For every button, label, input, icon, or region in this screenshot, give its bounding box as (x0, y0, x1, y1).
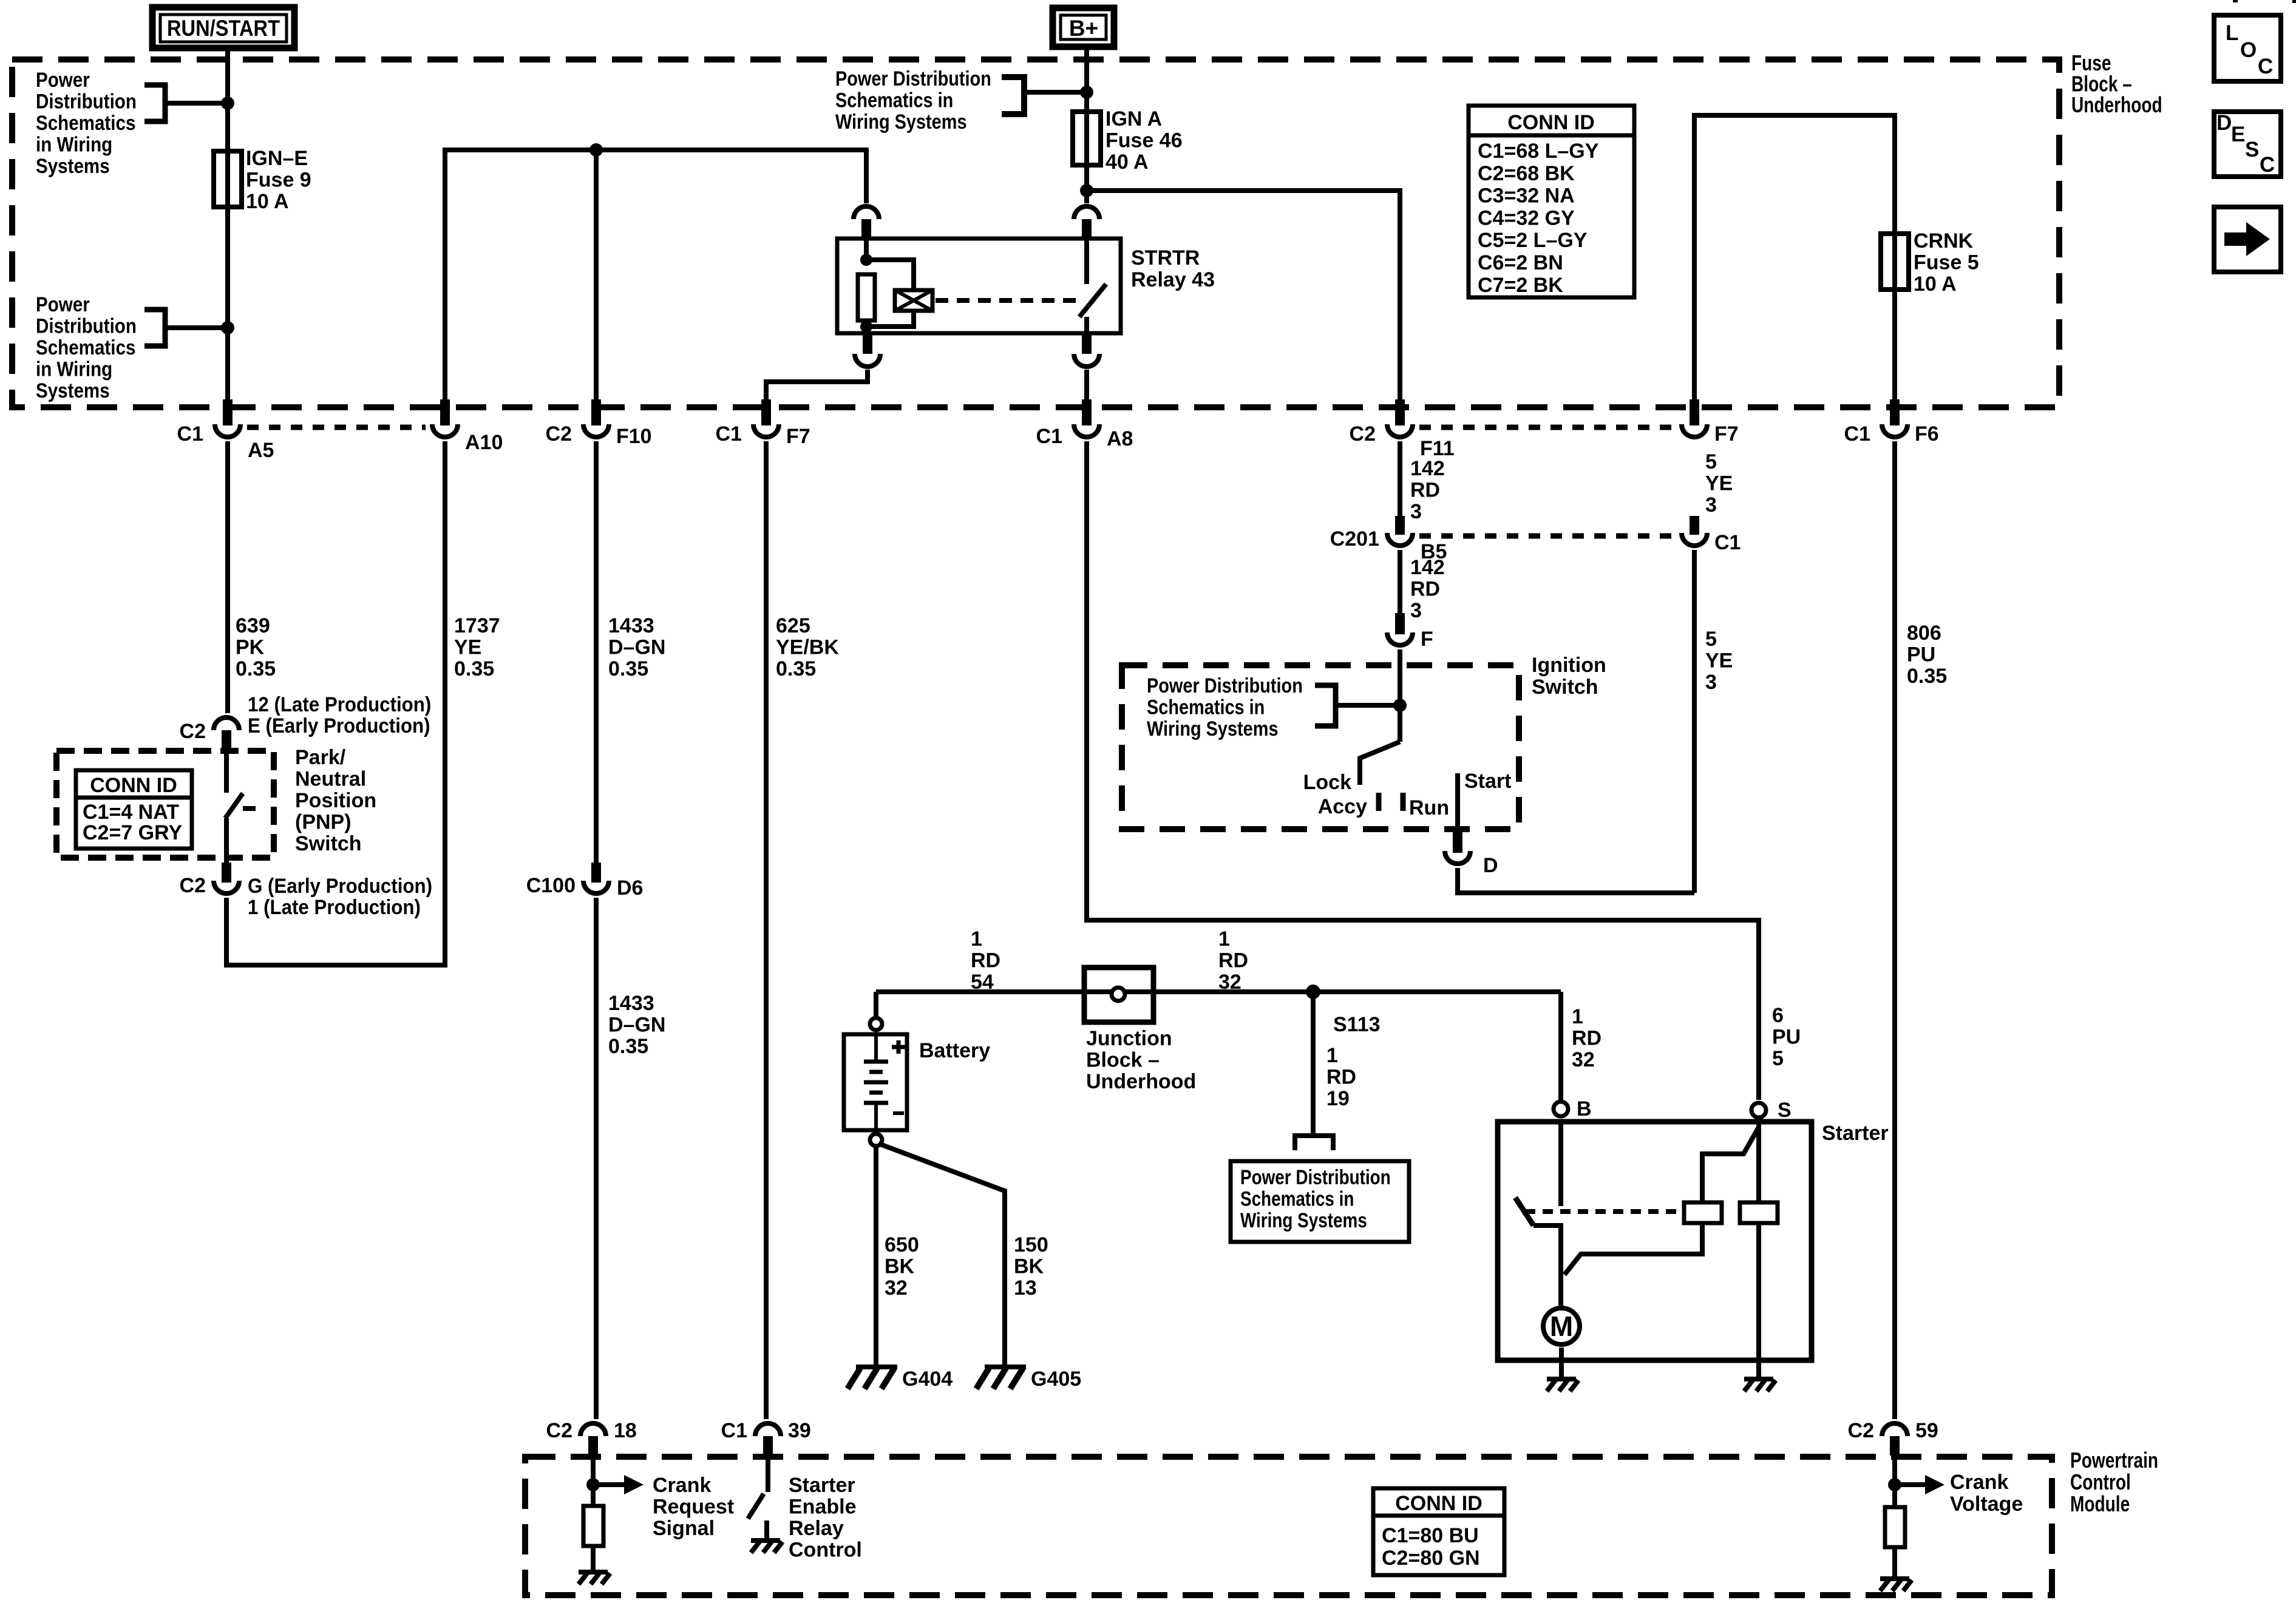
relay coil element box (895, 290, 932, 311)
svg-text:(PNP): (PNP) (295, 811, 352, 834)
relay coil-side top pin (861, 219, 871, 239)
svg-text:in Wiring: in Wiring (36, 358, 112, 381)
page edge artifacts (2233, 0, 2238, 2)
table CONN ID PCM (1373, 1488, 1504, 1575)
ignition Start contact bar (1455, 773, 1460, 832)
wire branch to F11 drop (1089, 191, 1400, 401)
svg-text:CONN ID: CONN ID (90, 774, 177, 797)
starter hold coil box (1740, 1202, 1778, 1223)
dotted connector line A5 to A10 (247, 425, 426, 430)
junction node below IGN A fuse (1080, 184, 1093, 197)
svg-text:10 A: 10 A (246, 190, 289, 213)
wire A10 riser and horizontal feeder to relay (445, 150, 866, 401)
wire C201 to F (1398, 550, 1402, 613)
terminal box RUN/START (152, 7, 294, 48)
svg-text:Power: Power (36, 68, 90, 91)
svg-text:Control: Control (789, 1539, 862, 1562)
battery plates (874, 1034, 878, 1062)
starter pull-in coil output to motor wire (1564, 1223, 1702, 1275)
PNP dashed box (56, 751, 274, 858)
svg-text:Crank: Crank (1950, 1471, 2008, 1494)
svg-text:1737: 1737 (454, 614, 500, 637)
label Power Distribution Schematics in Wiring Systems (top center) (835, 67, 991, 90)
svg-text:C: C (2258, 55, 2273, 78)
svg-text:C6=2 BN: C6=2 BN (1478, 251, 1563, 274)
svg-text:142: 142 (1410, 556, 1445, 579)
battery box (844, 1034, 907, 1130)
svg-text:12 (Late Production): 12 (Late Production) (248, 693, 431, 716)
svg-text:G405: G405 (1031, 1368, 1081, 1391)
svg-text:L: L (2226, 21, 2238, 45)
svg-text:BK: BK (885, 1255, 915, 1278)
arrow crank voltage (1900, 1482, 1927, 1487)
starter B internal wire (1558, 1122, 1563, 1206)
svg-text:Underhood: Underhood (1086, 1070, 1196, 1093)
svg-text:Power Distribution: Power Distribution (835, 67, 991, 90)
wire bracket to main (lower) (165, 325, 228, 330)
svg-text:Signal: Signal (653, 1517, 715, 1540)
svg-text:PU: PU (1907, 643, 1935, 666)
starter blade to motor wire (1533, 1225, 1561, 1306)
svg-text:Control: Control (2070, 1470, 2131, 1494)
ground PCM crank request (579, 1570, 608, 1575)
wire F6 to PCM pin 59 (1892, 441, 1897, 1419)
junction node at IGN-E feed (221, 97, 234, 110)
svg-text:Fuse 9: Fuse 9 (246, 169, 311, 192)
svg-text:5: 5 (1705, 450, 1717, 473)
svg-text:Wiring Systems: Wiring Systems (835, 110, 967, 134)
svg-text:RUN/START: RUN/START (167, 16, 280, 41)
svg-text:13: 13 (1014, 1276, 1037, 1300)
DESC legend box (2214, 112, 2281, 177)
svg-text:C7=2 BK: C7=2 BK (1478, 274, 1563, 297)
svg-text:E (Early Production): E (Early Production) (248, 714, 430, 737)
callout box Power Distribution Schematics in Wiring Systems (S113) (1231, 1161, 1409, 1242)
svg-text:Switch: Switch (1532, 676, 1598, 699)
dotted connector line F11 to F7 (1419, 425, 1675, 430)
svg-text:40 A: 40 A (1106, 151, 1149, 174)
relay switch-side top pin (1082, 219, 1092, 239)
svg-text:C2: C2 (546, 422, 572, 446)
relay coil resistor (858, 274, 875, 320)
svg-text:YE: YE (1705, 649, 1733, 673)
svg-text:3: 3 (1705, 671, 1717, 694)
label Powertrain Control Module (2070, 1448, 2158, 1473)
svg-text:M: M (1550, 1310, 1573, 1342)
ground below starter solenoid (1744, 1377, 1773, 1381)
svg-text:CRNK: CRNK (1914, 229, 1974, 253)
svg-text:Ignition: Ignition (1532, 654, 1606, 677)
svg-text:Power: Power (36, 293, 90, 316)
ground G404 (856, 1364, 897, 1369)
terminal box B+ (1053, 8, 1114, 47)
svg-text:RD: RD (1572, 1027, 1601, 1050)
wire A8 down and across to starter S (1087, 441, 1759, 1100)
svg-text:Junction: Junction (1086, 1027, 1172, 1050)
LOC legend box (2214, 15, 2281, 81)
svg-text:C100: C100 (526, 874, 576, 897)
svg-text:D–GN: D–GN (608, 1014, 665, 1037)
wire C1 down to D loop (1692, 550, 1697, 893)
table CONN ID PNP (76, 770, 192, 849)
wire PNP return loop to A10 (226, 441, 445, 965)
svg-text:Systems: Systems (36, 154, 110, 177)
wire F10 riser (594, 152, 599, 401)
svg-text:18: 18 (614, 1419, 637, 1442)
svg-text:PK: PK (236, 636, 265, 659)
relay switch-side bottom pin (1082, 333, 1092, 354)
svg-text:5: 5 (1705, 628, 1717, 651)
svg-text:Systems: Systems (36, 379, 110, 402)
resistor crank request pulldown (583, 1506, 603, 1546)
svg-text:C2: C2 (1350, 422, 1376, 446)
svg-text:3: 3 (1410, 599, 1422, 622)
junction node lower (221, 321, 234, 334)
svg-text:YE: YE (1705, 472, 1733, 495)
wire PCM 59 internal (1892, 1456, 1897, 1507)
ground PCM crank voltage (1880, 1576, 1909, 1581)
svg-text:Voltage: Voltage (1950, 1493, 2023, 1516)
harness continuation staple (1295, 1136, 1333, 1150)
svg-text:C1=68 L–GY: C1=68 L–GY (1478, 140, 1599, 163)
svg-text:RD: RD (1218, 949, 1248, 972)
connector pin F (ignition feed) (1395, 613, 1405, 634)
svg-text:Starter: Starter (1822, 1122, 1889, 1145)
svg-text:1: 1 (1326, 1044, 1338, 1067)
junction block - underhood box (1084, 968, 1153, 1022)
svg-text:A10: A10 (465, 431, 503, 454)
ignition detent tick Accy (1376, 793, 1382, 811)
svg-text:10 A: 10 A (1914, 273, 1957, 296)
svg-text:C1: C1 (177, 422, 203, 446)
svg-text:S: S (2245, 138, 2259, 161)
svg-text:A8: A8 (1107, 427, 1133, 450)
svg-text:Position: Position (295, 789, 376, 812)
svg-text:3: 3 (1410, 500, 1422, 523)
svg-text:BK: BK (1014, 1255, 1044, 1278)
svg-text:Schematics: Schematics (36, 336, 135, 359)
wire bracket to B+ main (1022, 90, 1087, 95)
wire resistor to ground (PCM left) (591, 1546, 596, 1570)
svg-text:32: 32 (1218, 971, 1241, 994)
svg-text:in Wiring: in Wiring (36, 133, 112, 156)
relay coil-side top connector cup (854, 206, 879, 219)
svg-text:639: 639 (236, 614, 270, 637)
svg-text:C1: C1 (1844, 422, 1870, 446)
svg-text:S113: S113 (1333, 1013, 1381, 1036)
svg-text:D: D (1483, 854, 1498, 877)
svg-text:19: 19 (1326, 1087, 1350, 1110)
svg-text:C3=32 NA: C3=32 NA (1478, 185, 1575, 208)
svg-text:C1=4 NAT: C1=4 NAT (83, 801, 179, 824)
wire F into ignition switch (1398, 649, 1402, 742)
svg-text:F6: F6 (1915, 422, 1939, 446)
svg-text:S: S (1778, 1099, 1792, 1122)
wire B+ down to IGN A fuse (1084, 47, 1089, 203)
svg-text:Neutral: Neutral (295, 768, 366, 791)
wire F7 riser to CRNK branch (1694, 115, 1895, 401)
relay coil input wire (864, 239, 869, 261)
battery minus sign (893, 1111, 904, 1115)
svg-text:C2: C2 (546, 1419, 572, 1442)
connector C1 pin A8 (1082, 399, 1092, 425)
svg-text:Crank: Crank (653, 1474, 711, 1497)
svg-text:Wiring Systems: Wiring Systems (1147, 717, 1279, 741)
label Power Distribution Schematics in Wiring Systems (upper left) (36, 68, 90, 91)
svg-text:Distribution: Distribution (36, 314, 137, 337)
bracket to power distribution (lower left) (144, 310, 165, 346)
svg-text:IGN–E: IGN–E (246, 147, 308, 170)
junction node F10 tap (589, 143, 603, 157)
svg-text:142: 142 (1410, 457, 1445, 480)
label Power Distribution Schematics in Wiring Systems (ignition) (1147, 674, 1303, 697)
svg-text:RD: RD (1326, 1066, 1356, 1089)
svg-text:STRTR: STRTR (1131, 246, 1200, 269)
connector pin A10 (440, 399, 450, 425)
svg-text:Fuse 46: Fuse 46 (1106, 129, 1183, 152)
relay actuation dashed link (936, 298, 1079, 303)
svg-text:C2=68 BK: C2=68 BK (1478, 162, 1575, 185)
connector C1 pin F6 (1890, 399, 1900, 425)
svg-text:CONN ID: CONN ID (1507, 111, 1595, 134)
connector C1 (right column at C201) (1690, 516, 1699, 535)
starter hold coil output to ground (1756, 1223, 1761, 1360)
fuse CRNK Fuse 5 10A (1881, 234, 1909, 290)
connector C201 pin B5 (1395, 516, 1405, 535)
connector C2 pin F10 (591, 399, 601, 425)
junction node crank voltage (1888, 1478, 1901, 1491)
svg-text:C1: C1 (716, 422, 742, 446)
bracket to power distribution (top center) (1002, 77, 1024, 114)
arrow crank request signal (598, 1482, 627, 1487)
wire C100 to PCM pin 18 (594, 898, 599, 1419)
svg-text:0.35: 0.35 (776, 657, 816, 680)
bracket to power distribution (ignition) (1315, 685, 1336, 726)
wire relay switch output to A8 (1084, 370, 1089, 401)
svg-text:1: 1 (1218, 927, 1230, 951)
svg-text:A5: A5 (248, 439, 274, 462)
wire resistor to ground (PCM right) (1892, 1547, 1897, 1578)
wire PCM 18 internal (591, 1456, 596, 1506)
starter motor wire to ground (1559, 1347, 1564, 1378)
wire relay coil output to F7 drop (766, 370, 868, 401)
wire D to CRNK column (1458, 868, 1694, 893)
relay switch output wire (1084, 317, 1089, 333)
svg-text:O: O (2240, 38, 2257, 62)
junction node B+ feed (1080, 86, 1093, 99)
svg-text:C1: C1 (1036, 425, 1062, 448)
svg-text:1433: 1433 (608, 992, 654, 1015)
svg-text:0.35: 0.35 (1907, 665, 1947, 688)
connector C1 pin A5 (223, 399, 233, 425)
resistor crank voltage pulldown (1885, 1507, 1905, 1547)
svg-text:32: 32 (1572, 1048, 1595, 1071)
svg-text:IGN A: IGN A (1106, 107, 1162, 131)
wire F7 to PCM pin 39 (764, 441, 769, 1419)
svg-text:PU: PU (1772, 1026, 1801, 1049)
svg-text:Relay: Relay (789, 1517, 844, 1540)
svg-text:Schematics in: Schematics in (1147, 695, 1265, 719)
svg-text:C1=80 BU: C1=80 BU (1382, 1524, 1479, 1547)
connector pin F7 (right) (1690, 399, 1699, 425)
svg-text:650: 650 (885, 1233, 919, 1256)
svg-text:Powertrain: Powertrain (2070, 1448, 2158, 1473)
svg-text:3: 3 (1705, 493, 1717, 517)
wire F10 to C100 (594, 441, 599, 863)
relay STRTR Relay 43 box (837, 239, 1121, 333)
svg-text:1: 1 (1572, 1005, 1583, 1028)
relay coil loop lower return (866, 311, 914, 327)
svg-text:6: 6 (1772, 1004, 1784, 1027)
fuse block - underhood dashed boundary box (12, 59, 2059, 407)
connector C1 pin F7 (left) (761, 399, 771, 425)
svg-text:C2=7 GRY: C2=7 GRY (83, 821, 182, 844)
svg-text:F: F (1421, 628, 1433, 651)
relay switch-side bottom connector cup (1074, 354, 1099, 367)
connector C2 pin F11 (1395, 399, 1405, 425)
svg-text:YE: YE (454, 636, 481, 659)
svg-text:YE/BK: YE/BK (776, 636, 839, 659)
starter terminal B (1554, 1102, 1568, 1116)
relay switch-side top connector cup (1074, 206, 1099, 219)
relay coil-side bottom pin (863, 333, 872, 354)
svg-text:39: 39 (788, 1419, 811, 1442)
svg-text:C5=2 L–GY: C5=2 L–GY (1478, 229, 1588, 252)
svg-text:Distribution: Distribution (36, 90, 137, 113)
svg-text:RD: RD (1410, 479, 1440, 502)
svg-text:F7: F7 (786, 425, 810, 448)
relay coil bottom junction node (860, 320, 872, 333)
junction node crank request (586, 1478, 600, 1491)
svg-text:RD: RD (1410, 578, 1440, 601)
wire to ground starter enable (764, 1520, 769, 1538)
connector C1 pin 39 (755, 1423, 781, 1436)
starter box (1498, 1122, 1812, 1360)
svg-text:C2: C2 (1848, 1419, 1874, 1442)
svg-text:C2=80 GN: C2=80 GN (1382, 1547, 1480, 1570)
wire PCM 39 internal (766, 1456, 770, 1492)
starter terminal S (1751, 1103, 1766, 1117)
starter pull-in coil box (1684, 1202, 1722, 1223)
svg-text:RD: RD (971, 949, 1000, 972)
svg-text:Relay 43: Relay 43 (1131, 268, 1215, 291)
connector C100 pin D6 (591, 863, 601, 883)
ground G405 (985, 1364, 1026, 1369)
relay switch input wire (1084, 239, 1089, 284)
wire pin E to switch (224, 751, 229, 793)
svg-text:5: 5 (1772, 1047, 1784, 1070)
svg-text:625: 625 (776, 614, 810, 637)
connector pin D (ignition start output) (1453, 832, 1462, 853)
svg-text:C1: C1 (721, 1419, 747, 1442)
svg-text:C1: C1 (1714, 531, 1741, 554)
svg-text:Request: Request (653, 1496, 734, 1519)
wire bracket to main (165, 101, 228, 106)
svg-text:Start: Start (1464, 770, 1511, 793)
relay coil-side bottom connector cup (855, 354, 880, 367)
svg-text:Enable: Enable (789, 1496, 856, 1519)
wire junction run down to starter B (1558, 992, 1563, 1100)
starter main contact blade (1515, 1198, 1533, 1225)
svg-text:Block –: Block – (1086, 1049, 1160, 1072)
wire battery positive to junction block and S113 run (874, 992, 878, 1016)
svg-text:Park/: Park/ (295, 746, 346, 769)
svg-text:Power Distribution: Power Distribution (1240, 1165, 1391, 1188)
svg-text:E: E (2231, 123, 2245, 146)
svg-text:32: 32 (885, 1276, 908, 1300)
svg-text:1433: 1433 (608, 614, 654, 637)
label 12 Late / E Early production (248, 693, 431, 716)
ground starter enable relay control (751, 1538, 780, 1543)
svg-text:Underhood: Underhood (2071, 93, 2162, 117)
svg-text:F7: F7 (1714, 422, 1739, 446)
svg-text:C201: C201 (1330, 527, 1379, 551)
svg-text:Wiring Systems: Wiring Systems (1240, 1209, 1367, 1232)
svg-text:F10: F10 (616, 425, 652, 448)
svg-text:C4=32 GY: C4=32 GY (1478, 206, 1575, 229)
svg-text:Lock: Lock (1303, 771, 1351, 794)
relay coil resistor lower wire (864, 320, 869, 333)
svg-text:Power Distribution: Power Distribution (1147, 674, 1303, 697)
powertrain control module dashed box (525, 1457, 2052, 1595)
connector C2 pin 59 (1882, 1423, 1907, 1436)
ignition detent tick Run (1401, 793, 1406, 811)
svg-text:Run: Run (1409, 796, 1449, 819)
battery negative terminal (870, 1134, 882, 1146)
svg-text:1 (Late Production): 1 (Late Production) (248, 895, 421, 919)
starter solenoid dashed actuation line (1525, 1209, 1682, 1214)
ignition switch wiper to Lock (1360, 742, 1400, 785)
wire switch to pin G (224, 818, 229, 863)
svg-text:0.35: 0.35 (454, 657, 494, 680)
bracket to power distribution (upper left) (144, 85, 165, 121)
wire S113 stub down (1311, 992, 1316, 1135)
connector C2 pin E (PNP top) (214, 717, 239, 730)
splice node S113 (1306, 985, 1320, 999)
wire RUN/START down to IGN-E fuse (225, 48, 230, 401)
svg-text:C: C (2260, 153, 2275, 177)
svg-text:Fuse 5: Fuse 5 (1914, 251, 1979, 274)
svg-text:Schematics in: Schematics in (1240, 1187, 1354, 1210)
label Power Distribution Schematics in Wiring Systems (lower left) (36, 293, 90, 316)
label Fuse Block - Underhood (2071, 51, 2111, 75)
svg-text:D6: D6 (617, 876, 643, 900)
switch starter enable relay control (748, 1494, 764, 1519)
svg-text:Accy: Accy (1318, 795, 1367, 818)
svg-text:Starter: Starter (789, 1474, 855, 1497)
svg-text:Schematics in: Schematics in (835, 88, 953, 112)
relay switch blade (1079, 284, 1106, 317)
svg-text:1: 1 (971, 927, 982, 951)
dotted connector line B5 to C1 (1419, 534, 1675, 539)
battery plus sign (892, 1045, 905, 1049)
svg-text:Schematics: Schematics (36, 111, 135, 134)
starter motor M (1543, 1308, 1580, 1344)
svg-text:150: 150 (1014, 1233, 1048, 1256)
svg-text:0.35: 0.35 (236, 657, 276, 680)
svg-text:59: 59 (1915, 1419, 1938, 1442)
svg-text:CONN ID: CONN ID (1395, 1492, 1483, 1515)
arrow legend box (2214, 207, 2281, 272)
svg-text:0.35: 0.35 (608, 657, 648, 680)
svg-text:54: 54 (971, 971, 994, 994)
starter hold coil wire from S (1756, 1120, 1761, 1202)
svg-text:G404: G404 (902, 1368, 953, 1391)
wire starter solenoid to ground (1756, 1360, 1761, 1378)
svg-text:C2: C2 (180, 874, 206, 897)
connector C2 pin 18 (580, 1423, 606, 1436)
svg-text:B+: B+ (1069, 16, 1098, 41)
